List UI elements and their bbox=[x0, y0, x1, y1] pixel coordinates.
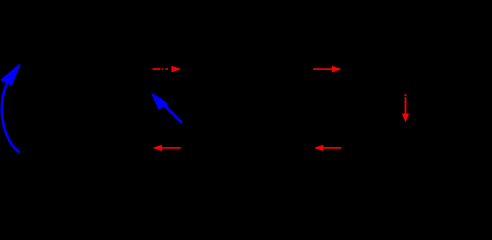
red solid arrow (top-right, pointing right) bbox=[313, 66, 342, 73]
blue diagonal arrow (pointing up-left) bbox=[152, 94, 182, 123]
blue curved recycle arrow (left) bbox=[2, 65, 20, 153]
red down arrow (right column) bbox=[402, 94, 409, 122]
red solid arrow (bottom-left, pointing left) bbox=[153, 145, 181, 151]
red solid arrow (bottom-right, pointing left) bbox=[314, 145, 342, 151]
red dashed arrow (top-left, pointing right) bbox=[153, 66, 182, 73]
